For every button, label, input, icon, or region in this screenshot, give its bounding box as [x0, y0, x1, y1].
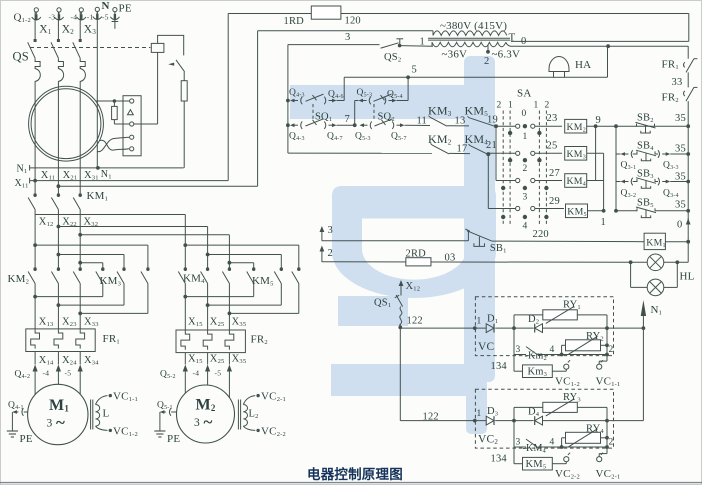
arrow net 0 — [687, 219, 689, 221]
junction X33 merge3 — [78, 312, 82, 316]
contactor KM4 main contacts — [184, 268, 187, 271]
terminal X1 top (Q1-2) — [34, 8, 38, 12]
svg-text:3: 3 — [345, 32, 350, 43]
diode D4 — [535, 416, 543, 425]
thermal relay FR1 box — [26, 329, 95, 352]
wire node21 down — [487, 154, 489, 208]
svg-text:2RD: 2RD — [406, 249, 427, 260]
secondary left end — [431, 42, 433, 46]
svg-text:1: 1 — [523, 132, 528, 142]
junction 1 left — [602, 209, 606, 213]
terminal VC1-1 — [597, 364, 602, 369]
junction 35 c — [686, 180, 690, 184]
wire SB bus — [615, 126, 617, 211]
terminal X2 top (-3) — [57, 8, 61, 12]
limit switch SQ2 contact B — [375, 119, 393, 126]
contact KM5 NO — [469, 118, 496, 127]
wire to relay term2 — [114, 123, 129, 125]
lead VC2-2 — [243, 426, 255, 430]
wire X21 row to control — [58, 185, 257, 187]
svg-text:1: 1 — [534, 101, 539, 111]
junction 35 b — [686, 152, 690, 156]
wire 5 down to Q5 row — [407, 77, 409, 100]
secondary right end — [506, 42, 511, 46]
button SB3 — [636, 179, 638, 182]
terminal VC1-2 — [564, 364, 569, 369]
heater FR2 — [181, 331, 190, 350]
svg-text:0: 0 — [521, 36, 526, 47]
svg-text:5: 5 — [412, 65, 417, 76]
dashed link SQ2 — [373, 104, 375, 120]
svg-text:PE: PE — [20, 433, 33, 445]
svg-text:4: 4 — [550, 438, 555, 448]
PE stub bar — [112, 21, 119, 23]
wire primary left run — [258, 30, 433, 32]
junction X21 phase2 — [57, 184, 61, 188]
plug Q3-4 — [658, 178, 660, 186]
svg-text:HL: HL — [680, 271, 695, 283]
rheostat RY2 — [566, 340, 601, 351]
wire 2 / 03 row — [322, 261, 631, 264]
dashed SA col 1L — [509, 111, 511, 227]
svg-text:3: 3 — [516, 438, 521, 448]
wire — [355, 100, 359, 102]
heater FR1 — [31, 329, 40, 348]
wire motor to plug — [24, 411, 28, 413]
arrow X12 tap — [400, 282, 402, 293]
diode D3 — [486, 416, 494, 425]
wire primary right run — [511, 40, 689, 42]
svg-text:~6.3V: ~6.3V — [492, 49, 521, 61]
svg-text:N: N — [102, 0, 110, 12]
PE stub wire — [114, 15, 116, 29]
heater FR2 — [225, 331, 234, 350]
coil KM4 — [565, 174, 587, 188]
svg-text:9: 9 — [596, 115, 601, 126]
svg-text:-4: -4 — [43, 369, 50, 378]
svg-text:3: 3 — [516, 345, 521, 355]
wire blade to resistor — [183, 72, 185, 81]
svg-text:1: 1 — [477, 409, 482, 419]
diode D1 — [486, 324, 494, 333]
row SB5 — [616, 210, 637, 212]
plug Q4-6 — [324, 97, 326, 105]
junction 35 a — [686, 124, 690, 128]
rectifier block VC dashed box — [475, 297, 613, 356]
svg-text:33: 33 — [672, 77, 683, 88]
svg-text:35: 35 — [675, 144, 686, 155]
wire X22 tap — [58, 226, 207, 228]
switch QS1 — [400, 293, 402, 296]
transformer secondary winding — [432, 42, 506, 47]
svg-text:2: 2 — [609, 438, 614, 448]
wire phase1 terminal to QS — [34, 12, 36, 39]
wire node19 down — [495, 126, 497, 180]
wire into VC2 — [400, 420, 486, 422]
wire KM1 to bus — [665, 241, 688, 243]
lamp HL1 — [647, 254, 664, 271]
junction lamps left — [629, 260, 633, 264]
svg-text:~36V: ~36V — [442, 49, 468, 61]
wire — [337, 100, 345, 102]
tick X11 left — [29, 178, 31, 184]
svg-text:3: 3 — [328, 225, 333, 236]
svg-text:2: 2 — [545, 101, 550, 111]
wire HA to 0 — [565, 76, 608, 78]
lead VC1-1 — [96, 396, 108, 405]
rheostat RY3 — [543, 402, 578, 412]
transformer T primary winding — [433, 31, 507, 36]
wire KM4 out — [587, 180, 604, 182]
wire motor to plug M2 — [171, 411, 177, 413]
junction KM5 feed3 — [228, 261, 232, 265]
contact KM4 contact — [526, 439, 538, 448]
svg-text:L: L — [103, 408, 110, 420]
N1 return — [641, 300, 646, 316]
wire N vertical — [96, 12, 98, 168]
svg-text:1: 1 — [508, 101, 513, 111]
wire 9 / SB2 row base — [587, 125, 689, 127]
wire 33 — [687, 72, 689, 87]
fuse 2RD — [406, 258, 431, 266]
svg-text:27: 27 — [549, 168, 560, 179]
junction KM1 right — [686, 240, 690, 244]
contactor KM2 main contacts — [33, 268, 36, 271]
junction X23 merge2 — [57, 303, 61, 307]
wire 35 bus upper — [687, 101, 689, 126]
junction KM3 feed2 — [57, 253, 61, 257]
svg-text:2: 2 — [328, 248, 333, 259]
trip resistor — [181, 81, 187, 101]
node 21 — [486, 152, 490, 156]
wire into VC — [400, 327, 486, 329]
wire phase1 through ring to KM1 — [34, 87, 36, 197]
svg-text:-5: -5 — [215, 369, 222, 378]
svg-text:-1: -1 — [87, 12, 94, 21]
motor feed arrows M1 — [34, 370, 36, 395]
wire phase2 terminal to QS — [57, 12, 59, 39]
terminal PE — [113, 8, 117, 12]
diode D2 — [535, 324, 543, 333]
svg-text:134: 134 — [491, 361, 508, 372]
button SB1 — [467, 231, 469, 241]
svg-text:PE: PE — [167, 433, 180, 445]
junction N joins N1 — [96, 166, 100, 170]
wire KM4 feed3 — [228, 235, 230, 270]
trip wire over — [158, 35, 184, 55]
limit switch SQ2 contact A — [374, 94, 392, 101]
secondary center tap 2 — [487, 45, 489, 54]
svg-text:35: 35 — [675, 113, 686, 124]
wire KM3 out — [587, 152, 604, 154]
heater FR2 — [203, 331, 212, 350]
wire phase3 to KM2 — [79, 210, 81, 271]
wire V3 up — [257, 31, 259, 186]
svg-text:4: 4 — [550, 345, 555, 355]
wire X12 row — [35, 214, 185, 216]
ring current transformer inner — [31, 89, 101, 159]
SA row 4 — [488, 208, 515, 210]
plug Q4-3 A — [290, 99, 295, 103]
coil KM3 — [565, 147, 587, 161]
svg-text:23: 23 — [547, 113, 558, 124]
plug Q5-3 B — [360, 123, 365, 127]
plug Q3-2 — [621, 180, 626, 184]
svg-text:2: 2 — [484, 56, 489, 67]
svg-text:PE: PE — [119, 3, 132, 15]
svg-text:SA: SA — [517, 88, 531, 100]
svg-text:03: 03 — [445, 253, 456, 264]
QS trip coil box — [151, 43, 164, 52]
svg-text:35: 35 — [675, 172, 686, 183]
watermark — [290, 56, 496, 434]
junction KM5 feed2 — [206, 253, 210, 257]
junction HA tap — [606, 44, 610, 48]
contact KM4 NO — [470, 146, 488, 155]
wire ring to relay term1 — [96, 100, 130, 102]
rectifier block VC2 dashed box — [475, 389, 613, 448]
node 9 — [594, 124, 598, 128]
wire KM4 feed1 — [184, 215, 186, 271]
wire phase2 through ring to KM1 — [57, 87, 59, 197]
svg-text:-4: -4 — [193, 369, 200, 378]
wire KM5 out — [588, 210, 604, 212]
svg-text:-5: -5 — [102, 12, 109, 21]
wire — [113, 101, 115, 106]
thermal relay FR2 box — [176, 330, 245, 353]
svg-text:VC: VC — [478, 341, 495, 353]
junction row B — [286, 123, 290, 127]
svg-text:0: 0 — [522, 109, 527, 119]
junction lamps right — [675, 260, 679, 264]
rheostat RY1 — [543, 310, 578, 320]
lead VC1-2 — [96, 426, 108, 430]
wire X32 tap — [80, 234, 229, 236]
button SB5 — [636, 208, 638, 211]
svg-text:21: 21 — [486, 140, 497, 151]
svg-text:HA: HA — [575, 59, 591, 71]
junction X15 merge1 — [183, 295, 187, 299]
dashed link SQ1 — [312, 104, 314, 120]
wire V2 up to 1RD — [227, 14, 229, 181]
terminal VC2-1 — [597, 457, 602, 462]
arrow wire 2 — [321, 248, 323, 263]
relay triangle — [128, 110, 134, 115]
plug Q5-4 — [384, 97, 386, 105]
svg-text:1: 1 — [477, 317, 482, 327]
junction N1 VC1 — [642, 326, 646, 330]
svg-text:-3: -3 — [49, 12, 56, 21]
wire to ground — [11, 412, 13, 431]
wire 13 — [447, 125, 469, 127]
wire 220 — [492, 240, 644, 243]
svg-text:-4: -4 — [71, 12, 78, 21]
horn HA — [549, 57, 569, 72]
terminal N — [95, 7, 99, 11]
svg-text:1RD: 1RD — [284, 16, 305, 27]
rheostat RY4 — [566, 432, 601, 443]
detector relay box — [123, 96, 141, 156]
terminal X3 top (-4) — [79, 8, 83, 12]
button SB4 — [636, 151, 638, 154]
wire phase3 terminal to QS — [79, 12, 81, 39]
svg-text:220: 220 — [533, 229, 549, 240]
contact KM3 NO — [430, 117, 447, 126]
junction bus top — [614, 124, 618, 128]
svg-text:2: 2 — [609, 345, 614, 355]
wire 17 row — [288, 152, 432, 154]
terminal VC2-2 — [564, 457, 569, 462]
svg-text:3: 3 — [194, 417, 200, 429]
fuse 1RD — [311, 6, 341, 19]
row SB3 — [616, 181, 621, 183]
dashed SA col 1R — [538, 111, 540, 227]
inductor L (M1 frame coil) — [90, 400, 92, 430]
tick N1 left — [29, 165, 31, 171]
inductor L2 (M2 frame coil) — [237, 400, 239, 430]
wire KM345 common — [603, 153, 605, 211]
svg-text:29: 29 — [549, 196, 560, 207]
limit switch SQ1 contact A — [306, 94, 324, 101]
wire 122 down — [399, 325, 401, 421]
junction KM3 feed3 — [78, 261, 82, 265]
wire down to 7 — [354, 101, 356, 126]
junction 122 — [398, 326, 402, 330]
junction node 7 — [353, 123, 357, 127]
svg-text:0: 0 — [677, 220, 682, 231]
wire phase1 to KM2 — [34, 210, 36, 271]
svg-text:25: 25 — [547, 141, 558, 152]
wire to ground M2 — [159, 412, 161, 431]
svg-text:~380V (415V): ~380V (415V) — [440, 20, 507, 32]
wire 35/0 bus lower — [687, 126, 689, 242]
coil KM5 — [566, 204, 588, 218]
transformer core — [428, 37, 510, 39]
lamp HL2 — [647, 279, 664, 296]
heater FR1 — [54, 329, 63, 348]
ground PE M1 — [7, 430, 18, 432]
relay terminal circles — [130, 99, 134, 103]
junction X11 phase1 — [33, 179, 37, 183]
svg-text:4: 4 — [523, 222, 528, 232]
wire up to 5 — [343, 77, 345, 100]
CT secondary wavy pair — [100, 140, 130, 150]
svg-text:~: ~ — [56, 413, 65, 432]
svg-text:7: 7 — [345, 114, 350, 125]
svg-text:电器控制原理图: 电器控制原理图 — [307, 466, 403, 482]
contactor KM3 main contacts — [101, 268, 104, 271]
wire N1 row — [30, 167, 184, 169]
wire KM4 feed2 — [207, 227, 209, 271]
wire — [113, 120, 115, 124]
wire N1 vertical — [642, 314, 644, 421]
plug Q5-3 A — [359, 99, 364, 103]
SA row 1 — [496, 125, 516, 127]
wire 17 — [449, 152, 470, 154]
svg-text:T: T — [509, 32, 516, 44]
QS switch blades — [28, 42, 35, 58]
row SB4 — [616, 153, 621, 155]
ground PE M2 — [154, 430, 165, 432]
wire phase3 through ring to KM1 — [79, 87, 81, 197]
junction KM5 feed1 — [183, 243, 187, 247]
QS thermal-magnetic elements — [35, 58, 40, 86]
sampling resistor — [112, 106, 118, 119]
svg-text:3: 3 — [47, 418, 53, 430]
junction row A — [286, 99, 290, 103]
junction X25 merge2 — [206, 303, 210, 307]
wire 3 row to SB1 — [322, 240, 469, 242]
contact KM2 NO — [432, 145, 449, 154]
svg-text:134: 134 — [491, 454, 508, 465]
wire vertical net3 left — [287, 45, 289, 154]
wire node9 down — [595, 126, 597, 180]
thermal contact FR2 — [686, 87, 694, 101]
svg-text:2: 2 — [497, 101, 502, 111]
junction X13 merge1 — [33, 295, 37, 299]
ring current transformer outer — [29, 86, 104, 161]
junction 5 — [406, 75, 410, 79]
wire 3 top row — [288, 44, 380, 46]
svg-text:-5: -5 — [65, 369, 72, 378]
junction 1 right — [614, 209, 618, 213]
motor feed arrows M2 — [184, 370, 186, 393]
wire 0 row — [511, 45, 689, 47]
wire up to trip coil — [157, 52, 159, 124]
svg-text:122: 122 — [407, 316, 423, 327]
arrow wire 3 — [321, 228, 323, 241]
svg-text:~: ~ — [204, 413, 213, 432]
wire right edge down — [688, 14, 690, 42]
plug Q3-3 — [658, 150, 660, 158]
svg-text:QS: QS — [13, 50, 29, 64]
plug Q3-1 — [621, 152, 626, 156]
coil KM2 — [565, 119, 587, 133]
flexible link 122 — [400, 307, 402, 328]
wire phase2 to KM2 — [57, 210, 59, 271]
wire X11 row — [30, 180, 229, 182]
wire 5 row — [344, 76, 551, 78]
dashed SA col 2R — [545, 111, 547, 227]
plug Q5-1 — [169, 408, 171, 416]
thermal contact FR1 — [686, 59, 694, 73]
junction KM3 feed1 — [33, 243, 37, 247]
svg-text:11: 11 — [417, 116, 428, 127]
wire 11 — [405, 124, 431, 126]
junction 35 d — [686, 209, 690, 213]
heater FR1 — [76, 329, 85, 348]
wire 120 to right — [341, 13, 689, 15]
contactor KM1 main contacts — [33, 194, 36, 197]
wire relay term2 right — [134, 123, 158, 125]
plug Q4-7 — [324, 121, 326, 129]
contact Km2 contact — [526, 347, 538, 356]
coil KM5 — [523, 457, 553, 470]
wire — [397, 100, 409, 102]
wire to 1RD fuse — [228, 13, 311, 15]
svg-text:19: 19 — [487, 115, 498, 126]
contactor KM5 main contacts — [252, 268, 255, 271]
junction resistor top — [113, 99, 117, 103]
plug Q4-3 B — [290, 123, 295, 127]
junction X35 merge3 — [228, 312, 232, 316]
node 19 — [494, 124, 498, 128]
coil KM1 — [644, 233, 665, 249]
switch QS2 — [381, 43, 399, 48]
motor M2 circle — [177, 385, 235, 443]
wire resistor down to N1 row — [183, 101, 185, 168]
dashed SA col 2L — [502, 111, 504, 227]
